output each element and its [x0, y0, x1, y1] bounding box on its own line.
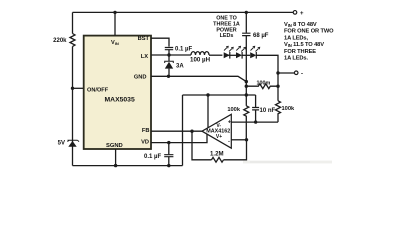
wire: left rail upper segment [72, 12, 74, 33]
svg-text:0.1 µF: 0.1 µF [144, 154, 161, 160]
diode D1 3A schottky catch diode [165, 55, 174, 76]
node: VIN junction on top rail [113, 11, 116, 14]
svg-text:ON/OFF: ON/OFF [87, 87, 109, 93]
svg-text:5V: 5V [58, 141, 65, 147]
wire: 10nF top lead [255, 95, 257, 107]
node: ON/OFF junction on left rail [71, 87, 74, 90]
svg-text:BST: BST [138, 36, 150, 42]
svg-text:V+: V+ [216, 134, 222, 140]
wire: LED3 to right drop [256, 55, 278, 73]
wire: left rail lower segment [72, 47, 74, 166]
inductor L1 100uH [191, 52, 209, 55]
LED D3 [224, 46, 234, 58]
capacitor C1 0.1uF bootstrap [165, 48, 173, 56]
svg-text:MAX5035: MAX5035 [105, 96, 135, 103]
svg-text:220k: 220k [53, 38, 67, 44]
resistor R3 100k right [276, 101, 281, 122]
wire: op-amp +input line [231, 121, 278, 123]
svg-text:LEDs: LEDs [220, 33, 234, 39]
svg-text:FOR ONE OR TWO: FOR ONE OR TWO [284, 29, 334, 35]
node: LED return junction [276, 71, 279, 74]
faint ghost text bottom [243, 161, 332, 164]
wire: right vertical below LED return [277, 73, 279, 101]
node: VD cap ground junction [167, 164, 170, 167]
svg-text:-: - [301, 71, 303, 77]
svg-text:0.1 µF: 0.1 µF [175, 47, 192, 53]
svg-text:VD: VD [141, 139, 149, 145]
wire: 1.2M loop right leg [224, 140, 247, 160]
wire: op-amp -input line [231, 139, 246, 141]
svg-text:GND: GND [134, 75, 147, 81]
terminal: input plus [293, 11, 297, 15]
wire: to minus terminal [278, 72, 294, 74]
svg-text:100k: 100k [227, 107, 240, 113]
svg-text:VIN 11.5 TO 48V: VIN 11.5 TO 48V [284, 42, 324, 48]
svg-text:VIN 8 TO 48V: VIN 8 TO 48V [284, 22, 317, 28]
wire: ON/OFF stub [73, 87, 85, 89]
wire: 1.2M loop left leg [192, 131, 212, 160]
node: SGND junction on ground rail [114, 164, 117, 167]
wire: inductor to LED1 [209, 54, 222, 56]
svg-text:3A: 3A [176, 64, 184, 70]
svg-text:LX: LX [141, 54, 148, 60]
zener diode D2 5V clamp [68, 140, 80, 147]
svg-text:10 nF: 10 nF [260, 108, 276, 114]
IC U1 MAX5035 box [84, 36, 151, 149]
svg-text:VIN: VIN [111, 40, 119, 46]
wire: SGND pin stub [115, 149, 117, 166]
wire: BST stub to bootstrap cap [151, 38, 169, 46]
capacitor C4 10nF [252, 108, 259, 110]
node: sense resistor right junction [276, 85, 279, 88]
op-amp U2 MAX4162 body (drawn early so wires overlap correctly) [202, 114, 231, 148]
wire: node A vertical lower [245, 36, 247, 106]
svg-text:100m: 100m [257, 80, 271, 86]
wire: top VIN+ rail [73, 11, 294, 13]
node: op-amp V- stub junction [206, 93, 209, 96]
svg-text:68 µF: 68 µF [253, 33, 269, 39]
node: VD cap junction [167, 141, 170, 144]
terminal: output minus [294, 71, 298, 75]
wire: VIN pin stub [114, 12, 116, 35]
wire: ground drop to rail [182, 95, 184, 166]
wire: LX line [151, 54, 191, 56]
node: minus input junction [245, 138, 248, 141]
node: diode anode junction on GND line [167, 75, 170, 78]
wire: VD line to op-amp V+ [151, 134, 207, 143]
node: LX junction (cap + diode) [167, 53, 170, 56]
wire: node A vertical upper [245, 12, 247, 32]
LED D4 [236, 46, 246, 58]
wire: 10nF bottom lead [255, 110, 257, 122]
resistor R2 100m sense [246, 84, 278, 89]
wire: GND pin line with diagonal to node A [151, 76, 246, 81]
node: 10nF joins +input wire [254, 120, 257, 123]
node: FB / 1.2M junction [190, 130, 193, 133]
LED D5 [250, 46, 260, 58]
svg-text:100k: 100k [282, 106, 295, 112]
wire: bottom ground rail [73, 165, 183, 167]
svg-text:FB: FB [142, 128, 150, 134]
capacitor C5 0.1uF on VD [164, 155, 173, 157]
svg-text:1.2M: 1.2M [210, 151, 224, 158]
wire: LED1 to LED2 [228, 54, 236, 56]
resistor R5 1.2M [212, 157, 224, 162]
resistor R1 220k [70, 34, 75, 47]
svg-text:+: + [300, 11, 304, 17]
resistor R4 100k left [244, 106, 249, 140]
svg-text:SGND: SGND [106, 143, 123, 149]
svg-text:FOR THREE: FOR THREE [284, 49, 316, 55]
svg-text:1A LEDs.: 1A LEDs. [284, 56, 308, 62]
wire: FB line to op-amp output [151, 130, 202, 132]
node: 68uF junction on top rail [245, 11, 248, 14]
svg-text:-: - [228, 138, 230, 144]
wire: ground return horizontal y=95 [183, 94, 256, 96]
wire: op-amp V- supply stub [207, 95, 209, 128]
svg-text:100 µH: 100 µH [190, 57, 211, 64]
node: node A meets ground return [245, 93, 248, 96]
wire: LED2 to LED3 [242, 54, 250, 56]
capacitor C2 68uF [242, 33, 250, 35]
wire: VD cap top lead [168, 143, 170, 155]
svg-text:+: + [228, 119, 232, 125]
svg-text:1A LEDs,: 1A LEDs, [284, 35, 308, 41]
wire: VD cap bottom lead [168, 157, 170, 166]
node: GND joins node A [245, 80, 248, 83]
node: sense resistor left junction [245, 85, 248, 88]
